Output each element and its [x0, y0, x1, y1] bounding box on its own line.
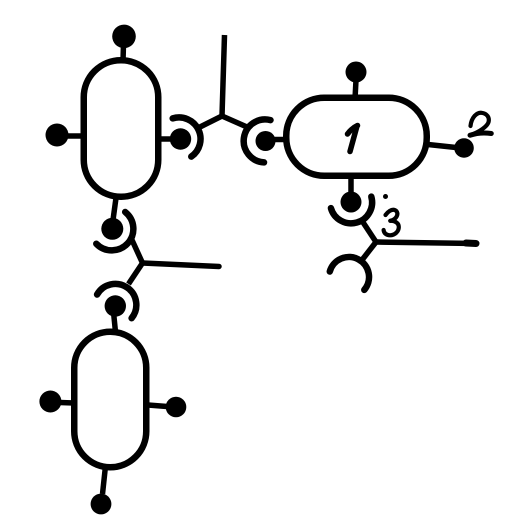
stalk A-bottom: [113, 198, 116, 220]
antibody Y2 binding arc on knob B-bottom: [331, 197, 372, 224]
label 1: [348, 126, 358, 152]
stalk C-top: [114, 315, 116, 332]
knob B-left: [256, 131, 276, 151]
stalk B-bottom: [348, 177, 354, 193]
knob C-right: [166, 397, 187, 418]
knob B-right: [454, 138, 474, 158]
antibody Y2 empty binding arc: [330, 257, 369, 290]
antibody Y1 stem: [222, 35, 225, 116]
stalk B-top: [355, 80, 356, 99]
knob A-bottom: [101, 218, 123, 240]
antibody Y2 upper arm: [362, 220, 377, 242]
antibody Y3 lower binding arc on knob C-top: [97, 284, 136, 318]
label 2: [470, 113, 491, 135]
antibody Y2 long arm: [376, 242, 476, 244]
label 3: [384, 210, 399, 236]
antibody Y1 right binding arc: [244, 119, 271, 162]
knob B-bottom: [341, 192, 362, 213]
antibody Y3 upper arm: [132, 240, 143, 263]
antigen capsule A (top-left): [84, 60, 159, 197]
stalk C-left: [60, 400, 74, 406]
antibody Y3 upper binding arc on knob A-bottom: [96, 212, 133, 250]
knob A-left: [46, 124, 69, 147]
stalk B-right: [428, 145, 456, 148]
knob C-left: [39, 391, 61, 413]
ink dot near label 3: [383, 194, 388, 199]
antibody Y1 left arm: [200, 116, 222, 127]
antigen capsule C (bottom-left): [74, 332, 146, 468]
stalk A-top: [120, 44, 126, 61]
stalk C-right: [148, 405, 167, 407]
knob B-top: [346, 62, 367, 83]
knob C-bottom: [91, 494, 112, 515]
antibody Y2 arm end blob: [466, 240, 476, 248]
knob A-right: [170, 128, 191, 149]
stalk A-right: [158, 136, 172, 142]
knob A-top: [112, 25, 136, 49]
antibody Y3 lower arm: [129, 263, 143, 284]
antigen capsule B (right, labelled 1): [286, 98, 427, 176]
antibody Y1 right arm: [222, 116, 247, 127]
antibody Y2 lower arm: [362, 242, 376, 260]
antibody Y1 left binding arc: [173, 117, 201, 156]
stalk A-left: [66, 133, 84, 139]
knob C-top: [105, 295, 126, 316]
stalk B-left: [273, 137, 285, 143]
stalk C-bottom: [103, 466, 106, 494]
antibody Y3 horizontal arm: [143, 263, 220, 267]
